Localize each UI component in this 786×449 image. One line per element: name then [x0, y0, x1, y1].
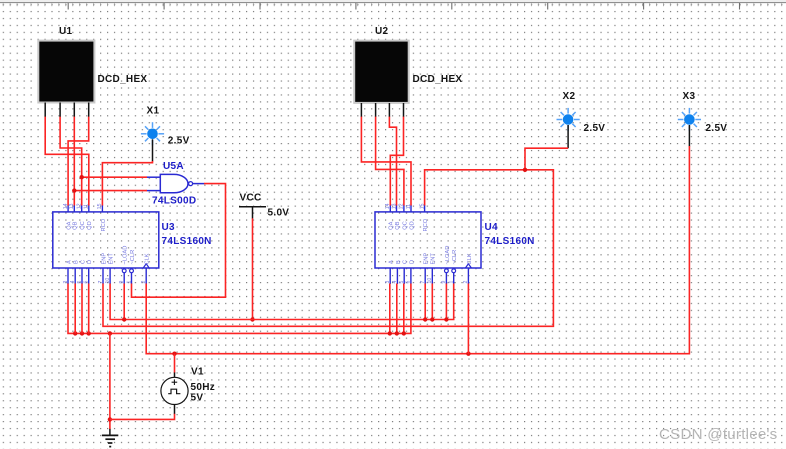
- svg-text:2.5V: 2.5V: [706, 123, 728, 134]
- svg-text:B: B: [396, 260, 402, 264]
- svg-text:2.5V: 2.5V: [584, 123, 606, 134]
- junction V1- to ground: [108, 417, 112, 421]
- svg-text:CLK: CLK: [145, 253, 151, 264]
- svg-text:U3: U3: [162, 222, 176, 233]
- wire U3.C drop: [81, 284, 83, 334]
- svg-text:QB: QB: [73, 221, 79, 229]
- source V1 clock 50Hz 5V: [161, 372, 188, 414]
- svg-text:B: B: [74, 260, 80, 264]
- svg-text:U5A: U5A: [163, 161, 184, 172]
- probe X1: [141, 122, 164, 145]
- svg-text:U2: U2: [375, 26, 389, 37]
- svg-text:CSDN @turtlee's: CSDN @turtlee's: [659, 426, 778, 443]
- display U2 DCD_HEX: [354, 41, 409, 117]
- svg-text:RCO: RCO: [423, 218, 429, 231]
- wire U2.1 to U4.QD: [361, 117, 411, 206]
- svg-text:X3: X3: [683, 91, 696, 102]
- junction U3.LOAD-bus: [122, 317, 126, 321]
- svg-text:QD: QD: [87, 221, 93, 230]
- X2 lead: [567, 125, 569, 148]
- U4 pin names: [389, 218, 473, 264]
- U3 pin names: [66, 218, 150, 264]
- svg-text:5V: 5V: [191, 393, 204, 404]
- wire U3.QC to U5A input A: [82, 176, 147, 178]
- wire U1.1 to U3.QD: [45, 117, 89, 206]
- svg-text:C: C: [403, 260, 409, 264]
- wire U1.2 to U3.QC: [60, 117, 82, 206]
- svg-text:5: 5: [77, 281, 83, 284]
- svg-text:2.5V: 2.5V: [168, 135, 190, 146]
- U3 pin numbers: [63, 203, 147, 283]
- junction U4.ENT-bus: [430, 317, 434, 321]
- svg-text:CLK: CLK: [467, 253, 473, 264]
- svg-text:~CLR: ~CLR: [130, 250, 136, 265]
- svg-text:~LOAD: ~LOAD: [445, 246, 451, 265]
- junction U3.B-gnd: [73, 331, 77, 335]
- svg-text:7: 7: [420, 281, 426, 284]
- svg-text:3: 3: [63, 281, 69, 284]
- junction QB-NAND: [72, 188, 76, 192]
- svg-text:4: 4: [70, 281, 76, 284]
- power VCC: [239, 207, 266, 219]
- wire U3.~LOAD drop: [123, 284, 125, 320]
- wire U5A output to U3.~CLR: [132, 184, 226, 298]
- svg-text:74LS160N: 74LS160N: [162, 236, 212, 247]
- svg-text:DCD_HEX: DCD_HEX: [98, 74, 148, 85]
- svg-text:10: 10: [105, 278, 111, 284]
- probe X3: [678, 108, 701, 131]
- op U5A NAND 74LS00D: [147, 174, 205, 192]
- svg-text:74LS00D: 74LS00D: [152, 195, 196, 206]
- wire U4.~LOAD drop: [445, 284, 447, 320]
- svg-text:74LS160N: 74LS160N: [485, 236, 535, 247]
- svg-text:QC: QC: [402, 221, 408, 230]
- junction VCC-bus: [250, 317, 254, 321]
- junction U4.C-gnd: [402, 331, 406, 335]
- svg-text:QD: QD: [409, 221, 415, 230]
- wire U4.CLK drop: [467, 284, 469, 354]
- wire U2.4 to U4.QA: [390, 117, 403, 206]
- junction U4.LOAD-bus: [444, 317, 448, 321]
- svg-text:A: A: [389, 260, 395, 264]
- junction U4.B-gnd: [395, 331, 399, 335]
- wire U4.B drop: [396, 284, 398, 334]
- wire U4.C drop: [403, 284, 405, 334]
- svg-text:C: C: [80, 260, 86, 264]
- wire U2.3 to U4.QB: [389, 117, 396, 206]
- svg-text:ENT: ENT: [109, 253, 115, 265]
- wire U3.D drop: [88, 284, 90, 334]
- svg-text:V1: V1: [191, 366, 204, 377]
- junction U3.C-gnd: [80, 331, 84, 335]
- junction U4.CLK on clock bus: [466, 352, 470, 356]
- wire X1 to U3.RCO: [102, 161, 152, 206]
- wire U4.ENP drop: [424, 284, 426, 320]
- svg-text:50Hz: 50Hz: [191, 382, 216, 393]
- wire U1.3 to U3.QB: [73, 117, 75, 206]
- junction V1+ on clock bus: [172, 352, 176, 356]
- svg-text:QB: QB: [395, 221, 401, 229]
- svg-text:1: 1: [126, 281, 132, 284]
- wire V1- to ground node: [110, 414, 175, 420]
- svg-text:ENP: ENP: [424, 253, 430, 265]
- svg-text:9: 9: [119, 281, 125, 284]
- wire ground bus U3.A to U4.D: [68, 284, 411, 334]
- svg-text:QA: QA: [67, 221, 73, 229]
- junction U3.D-gnd: [87, 331, 91, 335]
- junction X2-RCO: [523, 168, 527, 172]
- svg-text:~LOAD: ~LOAD: [123, 246, 129, 265]
- wire U4.RCO to U3.ENP: [103, 170, 553, 326]
- X1 lead: [152, 139, 154, 161]
- wire U4.ENT drop: [431, 284, 433, 320]
- counter U4 74LS160N: [375, 205, 481, 284]
- display U1 DCD_HEX: [38, 41, 94, 117]
- svg-text:DCD_HEX: DCD_HEX: [413, 74, 463, 85]
- wire VCC down to enable bus: [252, 218, 254, 319]
- junction gnd-drop: [108, 331, 112, 335]
- svg-text:X1: X1: [147, 105, 160, 116]
- svg-text:5: 5: [399, 281, 405, 284]
- svg-text:3: 3: [385, 281, 391, 284]
- svg-text:ENP: ENP: [101, 253, 107, 265]
- svg-text:2: 2: [463, 281, 469, 284]
- svg-text:~CLR: ~CLR: [452, 250, 458, 265]
- junction U4.A-gnd: [388, 331, 392, 335]
- svg-text:QA: QA: [389, 221, 395, 229]
- svg-text:4: 4: [392, 281, 398, 284]
- X3 lead: [688, 125, 690, 147]
- junction QC-NAND: [80, 175, 84, 179]
- top ruler: [0, 0, 786, 2]
- svg-text:RCO: RCO: [101, 218, 107, 231]
- probe X2: [557, 108, 580, 131]
- svg-text:A: A: [66, 260, 72, 264]
- svg-text:1: 1: [449, 281, 455, 284]
- junction U4.ENP-bus: [423, 317, 427, 321]
- ground: [102, 429, 118, 447]
- wire clock bus U3.CLK to X3: [146, 146, 689, 354]
- svg-text:5.0V: 5.0V: [268, 207, 290, 218]
- svg-text:QC: QC: [80, 221, 86, 230]
- svg-text:U1: U1: [59, 26, 73, 37]
- wire enable bus U3.ENT to U4.~CLR: [110, 284, 454, 320]
- svg-text:ENT: ENT: [431, 253, 437, 265]
- svg-text:U4: U4: [485, 222, 499, 233]
- svg-text:X2: X2: [563, 91, 576, 102]
- svg-text:7: 7: [98, 281, 104, 284]
- svg-text:6: 6: [84, 281, 90, 284]
- wire ground drop: [109, 333, 111, 429]
- svg-text:10: 10: [427, 278, 433, 284]
- svg-text:D: D: [409, 260, 415, 264]
- wire U3.B drop: [74, 284, 76, 334]
- U4 pin numbers: [385, 203, 469, 283]
- wire U2.2 to U4.QC: [376, 117, 404, 206]
- wire X2 tap: [525, 148, 568, 170]
- wire U1.4 to U3.QA: [68, 117, 89, 206]
- svg-text:D: D: [87, 260, 93, 264]
- wire U3.QB to U5A input B: [74, 190, 147, 192]
- svg-text:VCC: VCC: [240, 193, 262, 204]
- wire V1+ up: [174, 354, 176, 373]
- wire U4.A drop: [389, 284, 391, 334]
- svg-text:6: 6: [406, 281, 412, 284]
- svg-text:9: 9: [441, 281, 447, 284]
- counter U3 74LS160N: [53, 205, 159, 284]
- svg-text:2: 2: [141, 281, 147, 284]
